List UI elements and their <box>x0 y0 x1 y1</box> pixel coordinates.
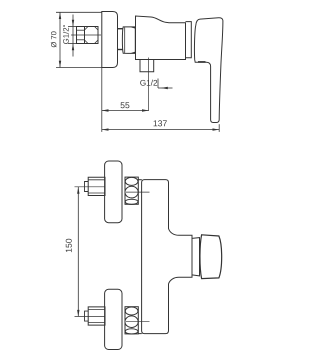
outlet label leader tick <box>157 79 159 89</box>
hex of inlet fitting (side view) <box>85 27 99 44</box>
threaded nipple (side view) <box>77 27 85 44</box>
dimension 150 line <box>77 187 79 317</box>
outlet centerline <box>148 58 150 111</box>
dimension 150 arrow down <box>77 310 79 317</box>
cartridge ring (side view) <box>186 22 192 58</box>
wall plate escutcheon (side view) <box>102 12 118 68</box>
handle adapter cone (front view) <box>192 238 200 276</box>
neck between plate and union nut (side view) <box>118 28 123 30</box>
mixer body (side view) <box>136 16 186 60</box>
body tube (front view) with handle boss <box>142 180 192 334</box>
union nut (side view) <box>122 27 135 54</box>
upper nut knurl ellipse top <box>125 177 138 185</box>
handle tip extension line <box>218 124 220 132</box>
lower thread stub <box>85 311 89 321</box>
dimension 55 left arrow <box>102 109 109 111</box>
dimension 137 left arrow <box>102 128 109 130</box>
dimension 55 right arrow <box>142 109 149 111</box>
lower nut knurl ellipse top <box>125 307 138 315</box>
dimension Ø70 arrow up <box>59 12 61 19</box>
dimension 150 arrow up <box>77 187 79 194</box>
dimension 55 text <box>121 102 130 108</box>
dimension G1/2" arrow toward top edge <box>72 20 74 27</box>
handle underside detail <box>198 61 206 63</box>
dimension Ø70 arrow down <box>59 61 61 68</box>
upper union nut <box>125 177 138 204</box>
lower union nut <box>125 307 138 334</box>
upper nut knurl ellipse bottom <box>125 199 138 204</box>
plate edge extension line down to 137 <box>101 68 103 132</box>
dimension Ø70 extension line bottom <box>56 67 102 69</box>
dimension G1/2" arrow toward bottom edge <box>72 44 74 51</box>
dimension 137 right arrow <box>213 128 220 130</box>
lower nut knurl ellipse middle <box>125 316 138 328</box>
lower wall escutcheon <box>105 289 122 349</box>
outlet pipe (side view) <box>140 60 154 72</box>
dimension 150 text <box>66 239 72 252</box>
handle knob (front view) <box>200 235 222 279</box>
nut-to-body connector top <box>138 179 142 181</box>
handle lever (side view) <box>194 18 222 123</box>
lower hex fitting <box>88 307 105 325</box>
dimension 137 line <box>102 129 219 131</box>
upper hex fitting <box>88 177 105 195</box>
outlet label leader arrow <box>161 87 168 89</box>
dimension Ø70 extension line top <box>56 11 102 13</box>
dimension G1/2" inlet extension lines <box>68 26 78 28</box>
dimension 55 line <box>102 110 149 112</box>
dimension Ø70 line <box>59 12 61 67</box>
dimension G1/2" text <box>63 25 69 44</box>
outlet label leader line <box>158 87 173 89</box>
upper nut knurl ellipse middle <box>125 186 138 198</box>
dimension 137 text <box>154 120 167 126</box>
outlet G1/2 label <box>140 80 157 86</box>
nut-to-body connector bottom <box>138 333 142 335</box>
upper inlet centerline <box>75 186 106 188</box>
dimension G1/2" inlet line (arrows outside) <box>72 15 74 57</box>
dimension Ø70 text <box>51 31 57 47</box>
lower nut centerline tick <box>126 321 150 323</box>
lower inlet centerline <box>75 315 106 317</box>
inlet centerline (side view) <box>71 34 101 36</box>
upper wall escutcheon <box>105 161 122 223</box>
upper thread stub <box>85 182 89 192</box>
lower nut knurl ellipse bottom <box>125 329 138 334</box>
upper nut centerline tick <box>126 191 150 193</box>
